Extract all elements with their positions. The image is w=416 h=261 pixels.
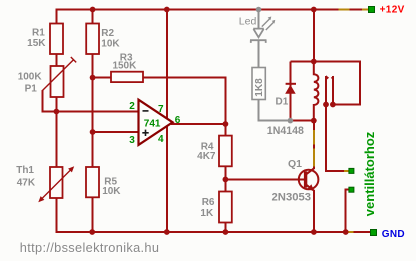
svg-text:+12V: +12V (380, 5, 405, 16)
svg-text:10K: 10K (102, 186, 121, 197)
svg-text:150K: 150K (112, 60, 137, 71)
svg-text:R6: R6 (202, 197, 215, 208)
svg-text:741: 741 (144, 118, 161, 129)
svg-text:ventillátorhoz: ventillátorhoz (362, 131, 377, 216)
svg-text:7: 7 (158, 104, 164, 115)
svg-text:R1: R1 (32, 28, 45, 39)
svg-text:4K7: 4K7 (197, 151, 216, 162)
svg-text:2: 2 (129, 101, 135, 112)
svg-text:1N4148: 1N4148 (267, 125, 304, 137)
svg-text:6: 6 (175, 115, 181, 126)
svg-text:GND: GND (382, 229, 405, 240)
svg-text:Q1: Q1 (288, 158, 302, 170)
svg-text:1K: 1K (200, 208, 214, 219)
svg-text:3: 3 (129, 135, 135, 146)
svg-text:1K8: 1K8 (254, 78, 265, 97)
svg-text:10K: 10K (101, 38, 120, 49)
svg-text:Th1: Th1 (16, 165, 34, 176)
svg-text:100K: 100K (18, 71, 43, 82)
svg-text:Led: Led (239, 15, 257, 27)
svg-text:P1: P1 (25, 84, 38, 95)
svg-text:4: 4 (158, 134, 164, 145)
svg-text:D1: D1 (276, 97, 289, 108)
svg-text:2N3053: 2N3053 (272, 191, 312, 203)
svg-text:http://bsselektronika.hu: http://bsselektronika.hu (20, 240, 160, 255)
svg-text:15K: 15K (27, 38, 46, 49)
svg-text:47K: 47K (17, 178, 36, 189)
